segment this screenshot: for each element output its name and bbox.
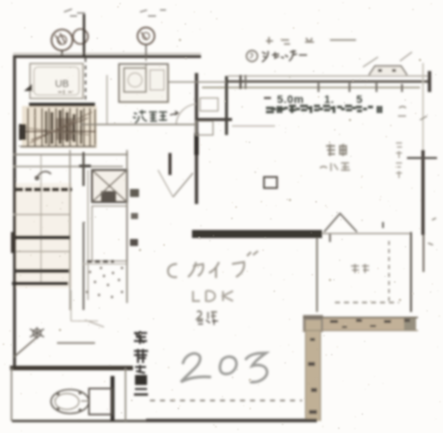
svg-text:UB: UB [55,79,69,90]
